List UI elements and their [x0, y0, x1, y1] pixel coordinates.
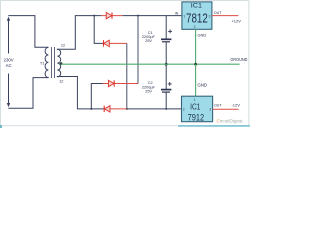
svg-text:2: 2 — [194, 25, 196, 29]
AC source arrow line — [7, 17, 10, 108]
svg-text:3: 3 — [208, 15, 210, 19]
svg-text:2: 2 — [183, 108, 185, 112]
svg-text:AC: AC — [6, 63, 12, 68]
node at D3/D4 branch — [90, 108, 92, 110]
node at D1/D2 branch — [93, 15, 95, 17]
svg-text:IC1: IC1 — [191, 3, 203, 10]
svg-text:T1: T1 — [40, 60, 45, 65]
wire: ground rail down to 7912 GND — [195, 64, 197, 96]
wire: branch up to D3 row — [91, 84, 102, 109]
node C2/negative rail — [165, 108, 167, 110]
svg-text:12: 12 — [59, 80, 63, 84]
svg-text:-12V: -12V — [231, 102, 240, 107]
wire: 7812 GND down to ground rail — [195, 29, 197, 64]
diode D3 — [103, 80, 139, 86]
node at D1/D3 join — [137, 15, 139, 17]
wire: AC top to primary top — [8, 16, 48, 48]
wire: AC bottom to primary bottom — [8, 78, 48, 109]
label C2 — [142, 81, 156, 93]
wire: negative rail to 7912 IN — [127, 108, 182, 110]
node ground rail / GND wire — [194, 63, 197, 66]
svg-text:25V: 25V — [145, 39, 152, 43]
capacitor C2 — [161, 64, 172, 109]
wire: +12V output — [212, 15, 239, 17]
svg-text:7812: 7812 — [186, 11, 208, 25]
plus sign C2 — [168, 82, 172, 86]
wire: secondary top to D1 row — [57, 16, 101, 50]
wire: -12V output — [213, 108, 239, 110]
svg-text:+12V: +12V — [231, 19, 241, 24]
wire: D1 to 7812 IN — [122, 15, 181, 17]
center tap node — [60, 62, 63, 65]
wire: branch down to D2 row — [94, 16, 103, 44]
diode D1 — [101, 12, 122, 18]
transformer T1 secondary coil — [57, 49, 60, 77]
svg-text:OUT: OUT — [214, 103, 222, 107]
wire: D3 up to positive rail — [137, 16, 139, 84]
svg-text:CircuitDigest: CircuitDigest — [217, 119, 244, 124]
svg-text:25V: 25V — [145, 90, 152, 94]
svg-text:OUT: OUT — [214, 11, 222, 15]
capacitor C1 — [161, 16, 172, 65]
label 230V AC — [4, 58, 14, 68]
wire: D2 down to negative rail — [126, 43, 128, 109]
op: IC1 7812 regulator — [182, 2, 212, 29]
svg-text:IN: IN — [175, 12, 179, 16]
label C1 — [142, 31, 156, 43]
svg-text:12: 12 — [61, 43, 65, 47]
transformer core — [51, 47, 54, 78]
diode D4 (points left) — [104, 106, 127, 112]
svg-text:3: 3 — [209, 108, 211, 112]
wire: secondary bottom down — [57, 77, 104, 109]
border frame — [0, 1, 250, 129]
svg-text:1: 1 — [183, 15, 185, 19]
svg-text:IC1: IC1 — [190, 101, 201, 111]
svg-text:7912: 7912 — [188, 113, 205, 124]
op: IC1 7912 regulator — [182, 96, 213, 123]
plus sign C1 — [168, 30, 172, 34]
transformer T1 primary coil — [45, 47, 48, 77]
svg-text:GND: GND — [197, 32, 206, 37]
node at D2/D4 join — [126, 108, 128, 110]
ground rail (green) — [61, 63, 240, 65]
node C1/ground — [165, 63, 168, 66]
svg-text:GND: GND — [197, 83, 207, 88]
svg-text:GROUND: GROUND — [230, 57, 247, 62]
diode D2 (points left) — [103, 40, 127, 46]
